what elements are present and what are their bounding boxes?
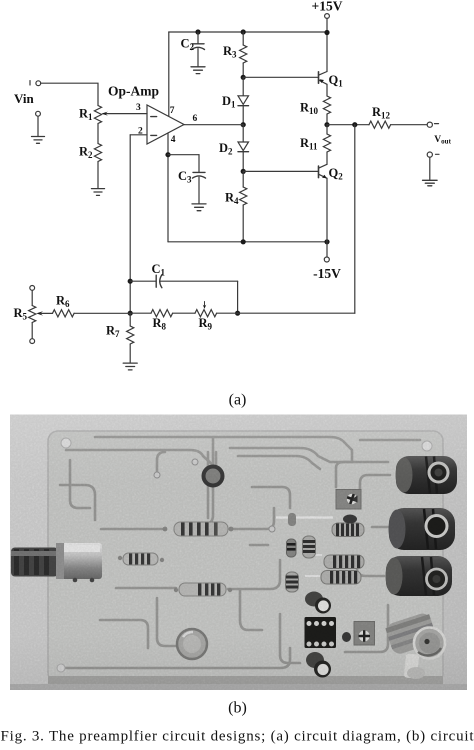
svg-text:(a): (a) (229, 391, 247, 408)
svg-text:Vin: Vin (14, 91, 35, 106)
binding post 2 (389, 508, 456, 550)
svg-text:6: 6 (193, 114, 198, 124)
trimpot 1 (336, 490, 361, 510)
BNC connector left nut (11, 548, 58, 577)
svg-text:+15V: +15V (312, 0, 343, 13)
capacitor top (dark ring) (204, 467, 223, 486)
binding post 3 (386, 556, 453, 596)
wire Vin lower to ground (37, 116, 39, 136)
solder pads (118, 459, 275, 592)
electrolytic cap vertical bottom (306, 652, 331, 678)
svg-text:Vout: Vout (434, 135, 451, 146)
wire top supply rail (169, 31, 327, 33)
resistor R9 (trimmer) (195, 302, 238, 317)
diode D1 (238, 77, 249, 124)
transistor Q1 (319, 72, 328, 97)
copper traces (60, 437, 420, 668)
vertical resistor 1 (303, 536, 316, 558)
resistor B (123, 553, 158, 565)
svg-text:2: 2 (138, 127, 143, 137)
resistor R8 (130, 310, 195, 317)
node bottom rail right (324, 239, 329, 244)
ground under C2 (191, 67, 205, 74)
terminal Vin upper (36, 81, 41, 86)
node op-amp output / diode midpoint (241, 122, 246, 127)
resistor R12 (369, 121, 427, 128)
resistor R1 (94, 106, 101, 124)
wire op-amp pin7 riser (168, 32, 170, 116)
transistor blob (343, 515, 357, 524)
mounting hole bottom-left (57, 664, 65, 672)
ground under R7 (123, 363, 137, 370)
BNC connector left body (56, 543, 102, 582)
node +15V junction (324, 30, 329, 35)
resistor R6 (53, 310, 131, 317)
svg-text:7: 7 (170, 106, 175, 116)
potentiometer R5 (29, 286, 53, 344)
svg-text:(b): (b) (228, 699, 247, 716)
node output (324, 122, 329, 127)
photo bottom shadow (10, 684, 467, 690)
dense resistor 2 (324, 555, 364, 569)
ground under Vin (32, 137, 45, 144)
node C2 top (195, 29, 200, 34)
wire pin3 input with wiper arrow (101, 112, 147, 116)
dense resistor 3 (321, 571, 361, 585)
pcb board (48, 431, 443, 683)
node C1/R9 right junction (235, 311, 240, 316)
ground under Vout (423, 180, 438, 186)
terminal +15V (325, 14, 330, 19)
ground under C3 (192, 204, 206, 211)
terminal Vout lower (427, 152, 432, 157)
resistor R10 (323, 96, 330, 125)
node Q1 base / R3 bottom (241, 75, 246, 80)
op-amp minus sign pin2 (151, 134, 157, 136)
svg-text:3: 3 (136, 103, 141, 113)
node pin4 / C3 (165, 152, 170, 157)
bright lead wire (276, 516, 333, 518)
node main feedback junction (128, 311, 133, 316)
electrolytic cap vertical top (305, 592, 331, 614)
node Q2 base / D2 bottom (241, 169, 246, 174)
wire -15V (326, 242, 328, 257)
mounting hole top-right (422, 441, 432, 451)
wire +15V to Q1 collector (326, 18, 328, 71)
wire R1 to R2 (97, 124, 99, 144)
wire op-amp output (184, 124, 243, 126)
vertical diode 2 (288, 513, 296, 526)
svg-text:-15V: -15V (313, 266, 341, 281)
wire op-amp pin4 drop (167, 133, 169, 242)
svg-text:4: 4 (171, 135, 176, 145)
binding post 1 (396, 456, 458, 494)
terminal Vin lower (36, 111, 41, 116)
node C1 left (128, 279, 133, 284)
wire feedback riser (354, 125, 356, 314)
op-amp U1 (147, 105, 184, 144)
capacitor C1 (130, 275, 237, 314)
trimpot 2 (342, 622, 375, 646)
electrolytic capacitor left (177, 629, 207, 659)
transistor Q2 (319, 164, 328, 242)
diode D2 (238, 125, 249, 172)
resistor R7 (127, 313, 134, 363)
vertical diode 1 (287, 539, 297, 557)
dense resistor 1 (332, 523, 364, 537)
wire pin2 input (130, 134, 147, 136)
photo vignette (10, 415, 467, 691)
wire Q1 base (243, 76, 318, 78)
wire Q2 base (243, 170, 318, 172)
vertical resistor 2 (286, 572, 299, 592)
wire to C3 (168, 154, 199, 156)
resistor R11 (323, 125, 330, 165)
svg-text:Op-Amp: Op-Amp (108, 84, 159, 99)
photo background (10, 415, 467, 691)
BNC jack bottom-right (384, 611, 445, 679)
op-amp minus sign pin3 (151, 116, 157, 118)
capacitor C2 (192, 32, 205, 67)
wire inverting feedback vertical (129, 135, 131, 313)
IC DIP-8 (305, 617, 337, 648)
wire Vin to R1 (41, 83, 98, 105)
ground under R2 (92, 189, 105, 196)
wire output to R12 (327, 124, 369, 126)
wire feedback bottom run (238, 312, 355, 314)
mounting hole top-left (61, 438, 71, 448)
svg-text:Fig. 3. The preamplfier circu: Fig. 3. The preamplfier circuit designs;… (1, 729, 474, 745)
node feedback tap (352, 122, 357, 127)
wire Vout lower to ground (429, 157, 431, 180)
resistor R3 (240, 32, 247, 77)
node bottom rail left (241, 239, 246, 244)
photo grain overlay (10, 415, 467, 691)
resistor C (179, 583, 226, 596)
resistor A (174, 522, 228, 536)
terminal -15V (324, 257, 329, 262)
terminal Vout upper (427, 122, 432, 127)
resistor R4 (240, 171, 247, 241)
node R3 top (241, 29, 246, 34)
capacitor C3 (193, 155, 206, 204)
wire bottom rail (168, 241, 327, 243)
resistor R2 (94, 144, 101, 189)
